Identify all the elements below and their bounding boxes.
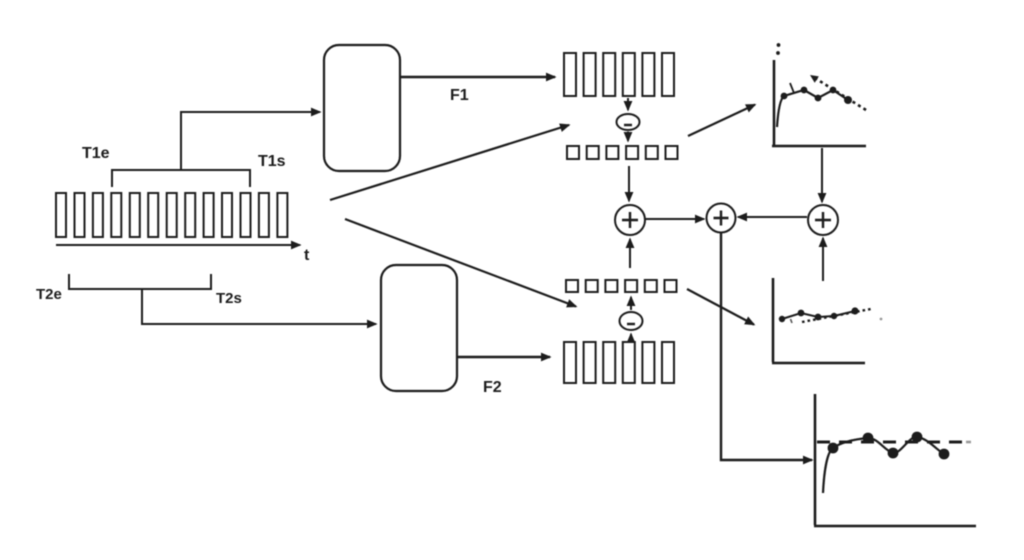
arrow sequence to minus 1 region bbox=[330, 125, 569, 200]
diff squares row 2 bbox=[566, 280, 677, 292]
feature bars F1 bbox=[564, 53, 674, 96]
svg-text:T1e: T1e bbox=[82, 145, 110, 162]
bracket T2 bbox=[69, 274, 211, 289]
plus node 1 bbox=[615, 205, 645, 235]
bracket T1 bbox=[112, 170, 250, 187]
plot 3 curve bbox=[823, 437, 944, 493]
plot 2 faint speck bbox=[880, 318, 883, 321]
plot 1 trend arrow bbox=[816, 79, 866, 110]
svg-text:T1s: T1s bbox=[258, 153, 286, 170]
arrow box F1 to feature bars bbox=[400, 76, 555, 78]
plot 2 axes bbox=[772, 278, 865, 363]
plot 3 faint dash end bbox=[966, 441, 971, 444]
arrow sequence to diff squares 2 region bbox=[345, 219, 576, 307]
plot 2 small tick bbox=[791, 319, 793, 323]
wire plus 2 to plot 3 bbox=[721, 233, 812, 461]
arrow diff squares 2 to plus 1 bbox=[629, 239, 631, 268]
arrow diff squares 2 to plot 2 bbox=[687, 289, 754, 325]
plot 3 dashed mean line bbox=[817, 441, 963, 444]
plot 1 axis continuation dots bbox=[776, 43, 780, 55]
arrow plus 3 to plus 2 bbox=[738, 216, 807, 218]
plot 2 trend line bbox=[802, 309, 871, 322]
plus node 2 bbox=[707, 204, 736, 233]
minus node 1 bbox=[617, 114, 640, 130]
arrow box F2 to feature bars bbox=[457, 356, 550, 358]
box F1 bbox=[324, 45, 400, 171]
plot 1 curve bbox=[777, 90, 848, 127]
plot 3 data points bbox=[828, 432, 950, 460]
arrow diff squares 1 to plot 1 bbox=[688, 105, 755, 136]
diff squares row 1 bbox=[567, 146, 678, 159]
svg-text:T2s: T2s bbox=[216, 290, 242, 307]
arrow minus 2 to diff squares 2 bbox=[630, 297, 632, 310]
arrow plot 1 to plus 3 bbox=[821, 148, 823, 202]
plot 1 axes bbox=[772, 60, 866, 146]
svg-text:F1: F1 bbox=[450, 87, 469, 104]
arrow plot 2 to plus 3 bbox=[822, 238, 824, 281]
arrow feature bars F1 to minus 1 bbox=[627, 98, 629, 110]
box F2 bbox=[381, 265, 457, 391]
svg-text:F2: F2 bbox=[483, 379, 502, 396]
plot 1 data points bbox=[781, 87, 852, 104]
time axis arrow bbox=[56, 244, 300, 246]
arrow feature bars F2 to minus 2 bbox=[630, 334, 632, 343]
plot 3 axes bbox=[814, 394, 976, 526]
arrow diff squares 1 to plus 1 bbox=[628, 166, 630, 201]
wire T2 bracket to box F2 bbox=[142, 289, 376, 324]
wire T1 bracket to box F1 bbox=[181, 112, 320, 170]
arrow minus 1 to diff squares 1 bbox=[627, 132, 629, 142]
minus node 2 bbox=[620, 312, 643, 330]
feature bars F2 bbox=[564, 342, 674, 383]
plus node 3 bbox=[808, 205, 838, 235]
svg-text:T2e: T2e bbox=[36, 286, 62, 303]
arrow plus 1 to plus 2 bbox=[645, 218, 704, 220]
plot 2 data points bbox=[779, 307, 859, 322]
plot 2 line bbox=[782, 311, 855, 319]
svg-text:t: t bbox=[304, 247, 310, 264]
plot 1 error tick bbox=[790, 83, 794, 93]
input bar sequence bbox=[56, 193, 287, 237]
